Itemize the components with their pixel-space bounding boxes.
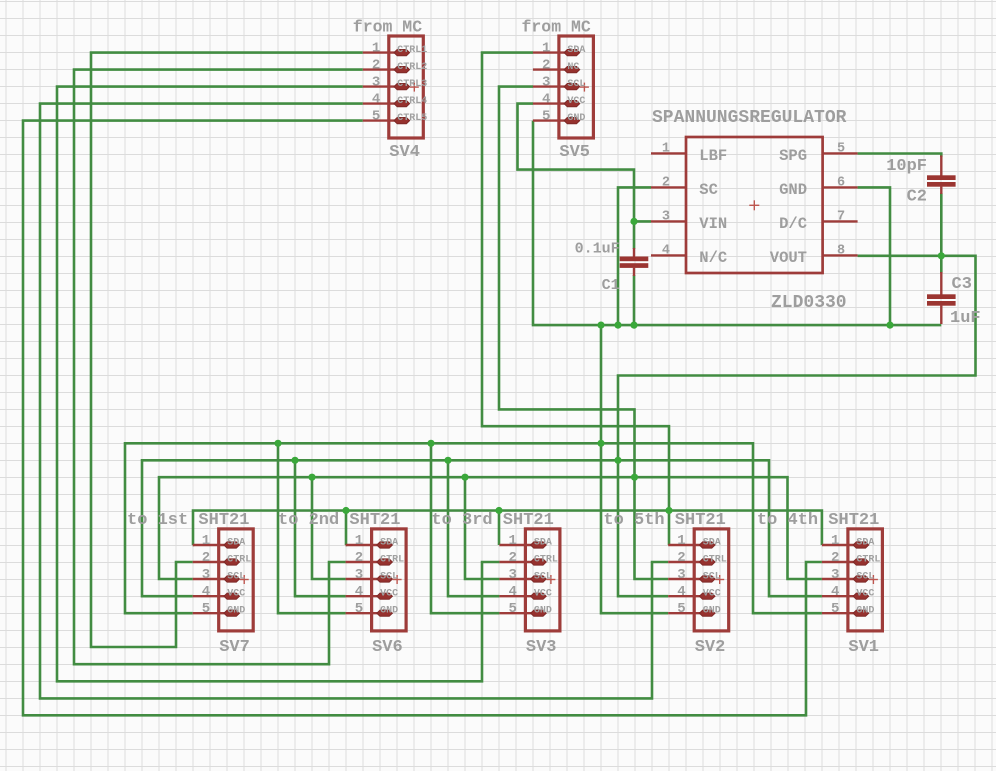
svg-text:3: 3 (508, 567, 516, 583)
wire net SDA from SV5.1 to SV2.1 (482, 53, 669, 545)
capacitor C2 10pF (927, 156, 956, 195)
junction VIN node (630, 218, 637, 225)
SV4 pin numbers 1-5 (372, 41, 380, 125)
svg-text:SDA: SDA (227, 538, 245, 549)
svg-text:SV6: SV6 (372, 638, 403, 657)
wire C2 bottom to VOUT net (940, 193, 943, 256)
wire VCC drop to SV6.4 (295, 460, 346, 596)
svg-text:to 4th SHT21: to 4th SHT21 (757, 511, 879, 530)
wire SDA bus SV7.1 to SV1.1 (193, 511, 822, 546)
capacitor C3 1uF (927, 272, 956, 324)
wire net GND SV5.5 to top bus (533, 121, 941, 326)
wire VCC bus B SV7.4 to SV1.4 (142, 460, 822, 596)
svg-text:VCC: VCC (567, 96, 585, 107)
svg-text:to 5th SHT21: to 5th SHT21 (603, 511, 725, 530)
SV6 pin numbers 1-5 (355, 533, 363, 617)
SV1 pin names (856, 538, 880, 617)
svg-text:1: 1 (677, 533, 685, 549)
SV3 pin numbers 1-5 (508, 533, 516, 617)
junction SDA bus at SV3 drop (495, 507, 502, 514)
wire SCL bus SV7.3 to SV1.3 (159, 477, 822, 579)
svg-text:1: 1 (662, 141, 670, 156)
svg-text:CTRL2: CTRL2 (397, 62, 427, 73)
svg-text:VCC: VCC (534, 589, 552, 600)
junction GND bus at SV3 drop (427, 440, 434, 447)
junction top GND bus / SV2 drop (597, 322, 604, 329)
svg-text:SDA: SDA (567, 45, 585, 56)
SV3 pin names (534, 538, 558, 617)
svg-text:2: 2 (202, 550, 210, 566)
svg-text:0.1uF: 0.1uF (575, 241, 620, 258)
SV5 pin names (567, 45, 585, 124)
svg-text:4: 4 (542, 92, 550, 108)
junction GND bus at SV2 drop (597, 440, 604, 447)
svg-text:5: 5 (355, 601, 363, 617)
svg-text:SV5: SV5 (559, 143, 590, 162)
svg-text:VCC: VCC (703, 589, 721, 600)
svg-text:1: 1 (508, 533, 516, 549)
wire GND drop to SV6.5 (278, 443, 346, 613)
svg-text:SV3: SV3 (526, 638, 557, 657)
svg-text:GND: GND (567, 113, 585, 124)
svg-text:CTRL1: CTRL1 (397, 45, 427, 56)
junction GND bus at SV6 drop (274, 440, 281, 447)
wire net CTRL2 (SV4.2 to SV6.2) (74, 70, 363, 665)
connector SV2 (5-pin header) (668, 529, 729, 631)
junction VOUT node at C2/C3 (938, 252, 945, 259)
IC pin numbers (662, 141, 845, 258)
svg-text:1: 1 (355, 533, 363, 549)
wire net VOUT pin8 to VCC feed (618, 256, 976, 596)
svg-text:CTRL: CTRL (856, 555, 880, 566)
SV5 pin numbers 1-5 (542, 41, 550, 125)
svg-text:CTRL3: CTRL3 (397, 79, 427, 90)
svg-text:2: 2 (542, 58, 550, 74)
svg-text:1: 1 (831, 533, 839, 549)
svg-text:2: 2 (831, 550, 839, 566)
junction top GND bus / pin6 (886, 322, 893, 329)
svg-text:2: 2 (677, 550, 685, 566)
svg-text:C2: C2 (907, 188, 927, 207)
svg-text:LBF: LBF (699, 147, 727, 165)
svg-text:to 2nd SHT21: to 2nd SHT21 (278, 511, 400, 530)
junction top GND bus / C1 (630, 322, 637, 329)
svg-text:2: 2 (662, 175, 670, 190)
svg-text:4: 4 (662, 243, 670, 258)
svg-text:CTRL: CTRL (703, 555, 727, 566)
svg-text:GND: GND (703, 606, 721, 617)
svg-text:SCL: SCL (703, 572, 721, 583)
svg-text:CTRL: CTRL (534, 555, 558, 566)
svg-text:3: 3 (202, 567, 210, 583)
svg-text:4: 4 (508, 584, 516, 600)
connector SV1 (5-pin header) (822, 529, 883, 631)
svg-text:4: 4 (355, 584, 363, 600)
svg-text:4: 4 (202, 584, 210, 600)
svg-text:CTRL: CTRL (227, 555, 251, 566)
svg-text:3: 3 (662, 209, 670, 224)
svg-text:SDA: SDA (380, 538, 398, 549)
svg-text:5: 5 (542, 109, 550, 125)
svg-text:5: 5 (831, 601, 839, 617)
junction VCC bus at SV6 drop (291, 457, 298, 464)
svg-text:C3: C3 (952, 275, 972, 294)
svg-text:VIN: VIN (699, 215, 727, 233)
svg-text:1: 1 (372, 41, 380, 57)
svg-text:VCC: VCC (227, 589, 245, 600)
junction top GND bus / SC (614, 322, 621, 329)
connector SV5 (5-pin header) (533, 36, 594, 138)
svg-text:2: 2 (508, 550, 516, 566)
svg-text:4: 4 (677, 584, 685, 600)
connector SV4 (5-pin header) (363, 36, 424, 138)
svg-text:2: 2 (372, 58, 380, 74)
svg-text:5: 5 (508, 601, 516, 617)
junction VCC bus at SV3 drop (444, 457, 451, 464)
svg-text:CTRL: CTRL (380, 555, 404, 566)
connector SV6 (5-pin header) (346, 529, 407, 631)
svg-text:2: 2 (355, 550, 363, 566)
svg-text:VCC: VCC (856, 589, 874, 600)
SV6 pin names (380, 538, 404, 617)
svg-text:SPG: SPG (779, 147, 807, 165)
svg-text:SPANNUNGSREGULATOR: SPANNUNGSREGULATOR (652, 108, 847, 128)
svg-text:4: 4 (372, 92, 380, 108)
wire SPG pin5 to C2 (858, 154, 942, 158)
svg-text:SCL: SCL (856, 572, 874, 583)
svg-text:4: 4 (831, 584, 839, 600)
wire SCL drop to SV6.3 (312, 477, 346, 579)
svg-text:from MC: from MC (522, 18, 591, 37)
wire GND drop to SV3.5 (431, 443, 499, 613)
connector SV7 (5-pin header) (193, 529, 254, 631)
svg-text:3: 3 (542, 75, 550, 91)
wire C1 bottom to GND bus (633, 275, 636, 325)
wire net CTRL1 (SV4.1 to SV7.2) (91, 53, 363, 647)
svg-text:SV2: SV2 (695, 638, 726, 657)
svg-text:SCL: SCL (227, 572, 245, 583)
svg-text:7: 7 (837, 209, 845, 224)
svg-text:5: 5 (372, 109, 380, 125)
svg-text:NC: NC (567, 62, 579, 73)
svg-text:D/C: D/C (779, 215, 807, 233)
svg-text:GND: GND (227, 606, 245, 617)
wire C3 top lead (940, 256, 943, 273)
junction SCL bus at SV3 drop (461, 474, 468, 481)
SV4 pin names (397, 45, 427, 124)
svg-text:SC: SC (699, 181, 718, 199)
svg-text:GND: GND (380, 606, 398, 617)
SV7 pin numbers 1-5 (202, 533, 210, 617)
svg-text:5: 5 (202, 601, 210, 617)
svg-text:6: 6 (837, 175, 845, 190)
wire SDA drop to SV6.1 (344, 511, 347, 546)
svg-text:3: 3 (372, 75, 380, 91)
svg-text:to 3rd SHT21: to 3rd SHT21 (431, 511, 553, 530)
wire net CTRL5 (SV4.5 to SV1.2) (23, 121, 822, 716)
junction SDA bus at SV6 drop (342, 507, 349, 514)
SV2 pin numbers 1-5 (677, 533, 685, 617)
wire SC pin2 to GND bus (618, 187, 651, 325)
SV7 pin names (227, 538, 251, 617)
svg-text:GND: GND (779, 181, 807, 199)
svg-text:3: 3 (831, 567, 839, 583)
wire net SCL from SV5.3 to SV2.3 (499, 87, 668, 579)
wire SDA drop to SV3.1 (498, 511, 501, 546)
connector SV3 (5-pin header) (499, 529, 560, 631)
svg-text:SV1: SV1 (848, 638, 879, 657)
svg-text:SCL: SCL (534, 572, 552, 583)
wire SCL drop to SV3.3 (465, 477, 499, 579)
svg-text:SDA: SDA (703, 538, 721, 549)
svg-text:N/C: N/C (699, 249, 727, 267)
wire net +5V SV5.4 to VIN and C1 (518, 104, 635, 249)
svg-text:1uF: 1uF (950, 309, 981, 328)
svg-text:5: 5 (677, 601, 685, 617)
svg-text:from MC: from MC (353, 18, 422, 37)
svg-text:CTRL5: CTRL5 (397, 113, 427, 124)
wire net CTRL3 (SV4.3 to SV3.2) (57, 87, 499, 682)
junction SDA bus at SV2 drop (665, 507, 672, 514)
IC voltage regulator ZLD0330 (651, 137, 858, 273)
svg-text:5: 5 (837, 141, 845, 156)
svg-text:SCL: SCL (567, 79, 585, 90)
wire net CTRL4 (SV4.4 to SV2.2) (40, 104, 668, 699)
svg-text:SV7: SV7 (219, 638, 250, 657)
svg-text:VOUT: VOUT (770, 249, 807, 267)
svg-text:SDA: SDA (534, 538, 552, 549)
svg-text:1: 1 (202, 533, 210, 549)
svg-text:1: 1 (542, 41, 550, 57)
svg-text:3: 3 (677, 567, 685, 583)
wire IC GND pin6 to bus (858, 187, 890, 325)
svg-text:VCC: VCC (380, 589, 398, 600)
svg-text:3: 3 (355, 567, 363, 583)
svg-text:SDA: SDA (856, 538, 874, 549)
wire GND vertical to SV2.5 (601, 325, 668, 613)
svg-text:ZLD0330: ZLD0330 (771, 293, 847, 313)
svg-text:SV4: SV4 (389, 143, 420, 162)
IC pin names (699, 147, 807, 267)
junction VCC bus feed (614, 457, 621, 464)
svg-text:10pF: 10pF (886, 157, 927, 176)
svg-text:to 1st SHT21: to 1st SHT21 (127, 511, 249, 530)
SV2 pin names (703, 538, 727, 617)
svg-text:C1: C1 (602, 277, 620, 294)
wire VIN pin3 connection (634, 220, 651, 223)
wire VCC drop to SV3.4 (448, 460, 499, 596)
svg-text:SCL: SCL (380, 572, 398, 583)
svg-text:CTRL4: CTRL4 (397, 96, 427, 107)
svg-text:GND: GND (856, 606, 874, 617)
wire GND bus A SV7.5 to SV1.5 (125, 443, 822, 613)
junction SCL bus at SV2 drop (631, 474, 638, 481)
SV1 pin numbers 1-5 (831, 533, 839, 617)
svg-text:GND: GND (534, 606, 552, 617)
svg-text:8: 8 (837, 243, 845, 258)
junction SCL bus at SV6 drop (308, 474, 315, 481)
capacitor C1 0.1uF (620, 248, 649, 276)
